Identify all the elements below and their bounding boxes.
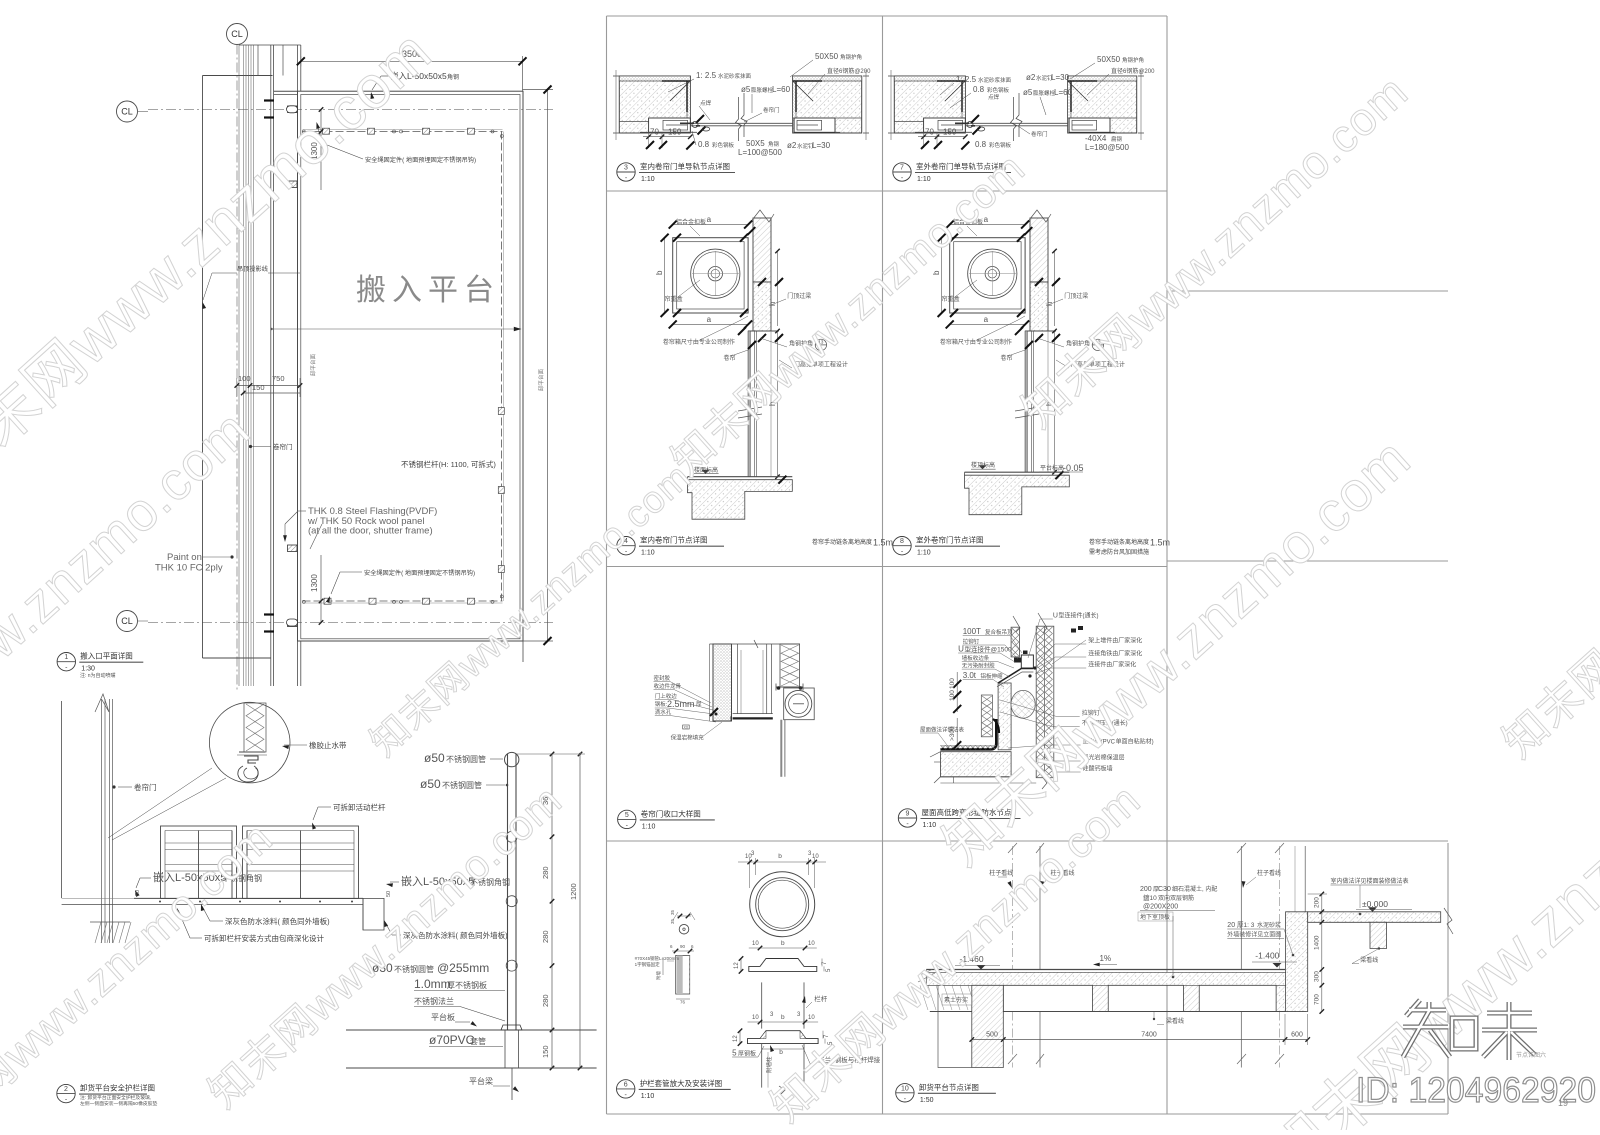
ground line steps left — [926, 985, 972, 1067]
svg-text:平台梁: 平台梁 — [469, 1076, 493, 1086]
safety hook clamp — [498, 487, 504, 494]
svg-text:卸货平台安全护栏详图: 卸货平台安全护栏详图 — [80, 1083, 155, 1093]
svg-text:不锈钢法兰: 不锈钢法兰 — [414, 996, 454, 1006]
handrail post (right elevation) — [507, 754, 509, 1030]
svg-text:0.8: 0.8 — [973, 85, 985, 94]
lintel concrete — [1030, 282, 1048, 331]
bottom ledge of insulation — [776, 686, 803, 688]
svg-text:L=180@500: L=180@500 — [1085, 143, 1129, 152]
svg-text:附墙柱: 附墙柱 — [765, 1056, 773, 1073]
svg-text:b: b — [778, 853, 782, 860]
svg-text:150: 150 — [252, 383, 265, 392]
wall face line — [770, 331, 772, 477]
svg-text:U: U — [958, 645, 964, 654]
svg-text:3.0t: 3.0t — [963, 671, 977, 680]
floor slab hatched — [965, 471, 1070, 473]
dim b left — [941, 238, 943, 313]
svg-text:套管: 套管 — [470, 1036, 486, 1046]
svg-text:卷帘门: 卷帘门 — [763, 106, 780, 114]
post sleeve ring — [506, 896, 517, 907]
beam under right slab — [1370, 922, 1387, 948]
shutter coil circles — [968, 249, 1017, 298]
svg-text:平台标高: 平台标高 — [1040, 464, 1064, 472]
svg-text:直径6钢筋@200: 直径6钢筋@200 — [827, 67, 871, 75]
svg-text:屋面做法详做法表: 屋面做法详做法表 — [920, 726, 965, 734]
svg-text:ø5: ø5 — [1023, 88, 1033, 97]
svg-text:50X5: 50X5 — [746, 139, 765, 148]
wall break top — [95, 694, 109, 712]
tube dims — [672, 950, 694, 952]
wall break top — [1026, 210, 1051, 224]
wire CL vertical centerline — [236, 45, 238, 691]
h dim line lower — [777, 331, 779, 477]
top line across — [710, 643, 801, 645]
svg-text:水泥砂浆抹面: 水泥砂浆抹面 — [718, 72, 752, 80]
svg-text:平台板: 平台板 — [431, 1012, 455, 1022]
sleeve plan ring — [750, 872, 815, 937]
svg-text:300: 300 — [1314, 971, 1321, 982]
svg-text:门顶过梁: 门顶过梁 — [1064, 292, 1088, 300]
svg-text:室内做法详见楼面装修做法表: 室内做法详见楼面装修做法表 — [1331, 877, 1409, 885]
svg-text:3: 3 — [624, 165, 628, 172]
svg-text:复合板吊顶: 复合板吊顶 — [985, 628, 1013, 636]
wall line top right — [1304, 846, 1306, 912]
svg-text:彩色钢板: 彩色钢板 — [987, 86, 1010, 94]
concrete block right — [793, 76, 862, 133]
svg-text:拉铆钉: 拉铆钉 — [963, 638, 980, 646]
dimension 3500 top — [301, 60, 523, 62]
detail blowup circle (rubber seal) — [209, 702, 290, 783]
svg-text:1200: 1200 — [569, 883, 578, 900]
rubber water stop profile — [244, 756, 258, 763]
safety hook clamp — [324, 598, 331, 604]
svg-text:需考虑防台风加固措施: 需考虑防台风加固措施 — [1089, 548, 1149, 556]
wall break top — [749, 210, 774, 224]
railing mid posts — [198, 831, 200, 899]
svg-text:安全绳固定件( 地面预埋固定不锈钢吊钩): 安全绳固定件( 地面预埋固定不锈钢吊钩) — [365, 156, 476, 164]
svg-text:卷帘手动链条离地高度: 卷帘手动链条离地高度 — [1089, 538, 1149, 546]
section arrow line mid — [271, 328, 520, 330]
detail title 3 — [617, 163, 635, 181]
svg-text:点焊: 点焊 — [988, 93, 1000, 101]
svg-text:卸平台面: 卸平台面 — [537, 369, 545, 392]
post sleeve ring — [506, 960, 517, 971]
h dim line lower — [1054, 331, 1056, 472]
column sight lines left — [1039, 846, 1041, 970]
detail title 9 — [898, 809, 916, 827]
shutter door guide rails (plan) — [243, 45, 245, 686]
svg-text:1:30: 1:30 — [81, 666, 95, 673]
dim a top — [950, 224, 1025, 226]
left ceiling insulation panel — [1011, 627, 1019, 657]
svg-text:帘重盒: 帘重盒 — [665, 295, 683, 303]
door track mount boxes on wall — [288, 106, 298, 113]
right double insulated wall — [1036, 626, 1054, 778]
svg-text:5: 5 — [625, 812, 629, 819]
svg-text:b: b — [932, 270, 941, 275]
shutter coil circles — [691, 249, 740, 298]
weld dot — [692, 122, 698, 128]
svg-text:厚: 厚 — [696, 701, 702, 708]
svg-text:90: 90 — [680, 944, 686, 949]
platform slab at post — [346, 1029, 597, 1031]
detail title 4 — [617, 537, 635, 555]
svg-text:XX: XX — [684, 725, 689, 729]
svg-text:可拆卸栏杆安装方式由包商深化设计: 可拆卸栏杆安装方式由包商深化设计 — [204, 933, 324, 943]
svg-text:地下室顶板: 地下室顶板 — [1140, 913, 1170, 921]
svg-text:角钢护角: 角钢护角 — [840, 53, 862, 61]
anchor detail dots on slab — [159, 901, 161, 903]
rail end — [393, 600, 396, 603]
wall inner lines — [270, 45, 272, 686]
railing panel — [161, 826, 237, 899]
svg-text:柱子看线: 柱子看线 — [1257, 869, 1281, 877]
svg-text:@200X200: @200X200 — [1143, 904, 1178, 911]
floor slab hatched — [688, 476, 793, 478]
svg-text:铝板伸缩: 铝板伸缩 — [981, 672, 1004, 680]
svg-text:5: 5 — [732, 1048, 737, 1057]
dim 1300 bottom — [320, 555, 322, 623]
svg-text:1:10: 1:10 — [642, 823, 656, 830]
label 素土夯实 — [942, 994, 972, 1005]
svg-text:100: 100 — [238, 374, 251, 383]
svg-text:70: 70 — [650, 128, 659, 137]
svg-text:700: 700 — [1314, 994, 1321, 1005]
PVC sleeve in slab — [504, 1030, 506, 1068]
svg-text:h: h — [768, 302, 777, 306]
svg-text:角钢: 角钢 — [447, 73, 459, 81]
svg-text:梁看线: 梁看线 — [1166, 1017, 1184, 1025]
right overall dim line — [547, 90, 549, 642]
guide channel right — [753, 331, 755, 477]
svg-text:1.0mm: 1.0mm — [414, 977, 451, 991]
bold ticks near lintel — [1024, 227, 1032, 235]
svg-text:左侧一侧面安装一侧再隔50橡皮胶垫: 左侧一侧面安装一侧再隔50橡皮胶垫 — [80, 1100, 157, 1107]
svg-text:L=200mm: L=200mm — [659, 956, 679, 961]
shutter door slats between blocks — [690, 122, 792, 124]
svg-text:点焊: 点焊 — [700, 99, 712, 107]
svg-text:CL: CL — [231, 29, 243, 39]
dim a bottom — [950, 323, 1025, 325]
svg-text:1.5m: 1.5m — [1150, 538, 1170, 548]
svg-text:无污染耐封胶: 无污染耐封胶 — [962, 662, 996, 670]
svg-text:50: 50 — [135, 890, 141, 896]
bottom plate lines — [640, 131, 697, 133]
angle protect corner left block — [937, 80, 965, 82]
svg-text:1: 2.5: 1: 2.5 — [696, 71, 717, 80]
svg-text:20: 20 — [1227, 922, 1235, 929]
svg-text:150: 150 — [668, 128, 682, 137]
svg-text:卸平台面: 卸平台面 — [309, 354, 317, 377]
node CL top grid circle — [227, 24, 248, 45]
break at right slab end — [1444, 908, 1453, 934]
wall lines left — [61, 701, 63, 898]
platform outer rectangle — [298, 91, 524, 641]
svg-text:密封胶: 密封胶 — [654, 674, 671, 682]
roof surface insulation layer — [940, 746, 995, 750]
door break mark — [1015, 407, 1039, 418]
svg-text:门顶过梁: 门顶过梁 — [787, 292, 811, 300]
svg-text:架上增件由厂家深化: 架上增件由厂家深化 — [1088, 637, 1142, 645]
post lines above installed flange — [761, 982, 763, 1028]
svg-text:-40X4: -40X4 — [1085, 134, 1107, 143]
svg-text:a: a — [707, 215, 712, 224]
svg-text:滴水孔: 滴水孔 — [655, 708, 672, 716]
svg-text:1: 2.5: 1: 2.5 — [956, 75, 977, 84]
right dim chain — [1321, 894, 1323, 1012]
door bottom bar — [733, 717, 773, 719]
door roller capsule top — [287, 106, 298, 113]
svg-text:ø2: ø2 — [787, 141, 797, 150]
svg-text:100T: 100T — [963, 627, 981, 636]
svg-text:收边件龙骨: 收边件龙骨 — [654, 682, 682, 690]
rail end — [491, 130, 494, 133]
svg-text:10: 10 — [752, 941, 759, 947]
door head line — [748, 330, 779, 332]
svg-text:卷帘箱尺寸由专业公司制作: 卷帘箱尺寸由专业公司制作 — [940, 338, 1012, 346]
safety hook clamp — [498, 408, 504, 415]
svg-text:水泥砂浆: 水泥砂浆 — [1257, 921, 1281, 929]
svg-text:卷帘手动链条离地高度: 卷帘手动链条离地高度 — [812, 538, 872, 546]
svg-text:安全绳固定件( 地面预埋固定不锈钢吊钩): 安全绳固定件( 地面预埋固定不锈钢吊钩) — [364, 569, 475, 577]
dim a bottom — [673, 323, 748, 325]
detail title 8 — [893, 537, 911, 555]
angle protect corner right block — [1068, 80, 1097, 82]
svg-text:ø70PVC: ø70PVC — [429, 1033, 475, 1047]
svg-text:12: 12 — [733, 1035, 739, 1042]
svg-text:保温岩棉填充: 保温岩棉填充 — [671, 734, 705, 742]
svg-text:-0.05: -0.05 — [1063, 463, 1084, 473]
rail end — [491, 600, 494, 603]
svg-text:35: 35 — [670, 909, 675, 915]
svg-text:帘重盒: 帘重盒 — [942, 295, 960, 303]
safety hook clamp — [323, 128, 330, 134]
left small tube elevation — [679, 924, 689, 934]
svg-text:扁钢: 扁钢 — [1111, 135, 1123, 143]
svg-text:200: 200 — [1314, 897, 1321, 908]
vertical break lines — [1011, 97, 1017, 141]
svg-text:注: n为自动喷嘴: 注: n为自动喷嘴 — [80, 672, 116, 679]
lines below installed flange — [761, 1044, 763, 1088]
door slat vertical — [1025, 331, 1027, 472]
svg-text:@255mm: @255mm — [437, 961, 489, 975]
safety hook clamp — [468, 128, 475, 134]
svg-text:150: 150 — [943, 128, 957, 137]
svg-text:750: 750 — [272, 374, 285, 383]
break marks on columns — [1008, 843, 1284, 853]
svg-text:#70X45: #70X45 — [635, 956, 651, 961]
svg-text:膨胀螺栓: 膨胀螺栓 — [751, 86, 774, 94]
svg-text:150: 150 — [541, 1045, 550, 1058]
insulation strip right — [780, 644, 800, 687]
platform wall edge pair — [297, 45, 299, 91]
svg-text:10: 10 — [901, 1085, 909, 1092]
mount bold ticks — [264, 99, 274, 101]
svg-text:室内卷帘门单导轨节点详图: 室内卷帘门单导轨节点详图 — [640, 161, 730, 171]
dim b left — [664, 238, 666, 313]
svg-text:1:10: 1:10 — [917, 550, 931, 557]
svg-text:直径6钢筋@200: 直径6钢筋@200 — [1111, 67, 1155, 75]
dim chain right of post — [551, 754, 553, 1068]
guide channel right — [1030, 331, 1032, 472]
wire CL horizontal centerline lower — [148, 622, 553, 624]
svg-text:L=30: L=30 — [812, 141, 831, 150]
svg-text:Paint on: Paint on — [167, 552, 202, 563]
svg-text:600: 600 — [1291, 1032, 1303, 1039]
svg-text:ø5: ø5 — [741, 85, 751, 94]
svg-text:0.8: 0.8 — [975, 140, 987, 149]
wall column hatched above lintel — [753, 218, 771, 282]
svg-text:彩色钢板: 彩色钢板 — [712, 141, 735, 149]
shutter box outer — [950, 238, 1025, 313]
ground hatch below wall — [95, 922, 101, 943]
bottom line of beams — [930, 1011, 1306, 1013]
svg-text:不锈钢圆管: 不锈钢圆管 — [446, 754, 486, 764]
rail end — [393, 130, 396, 133]
svg-text:L=30: L=30 — [1051, 73, 1070, 82]
svg-text:8: 8 — [900, 538, 904, 545]
svg-text:不锈钢圆管: 不锈钢圆管 — [442, 780, 482, 790]
svg-text:CL: CL — [121, 616, 133, 626]
svg-text:室外卷帘门节点详图: 室外卷帘门节点详图 — [916, 535, 984, 545]
wall column hatched above lintel — [1030, 218, 1048, 282]
svg-text:1字钢锚固定: 1字钢锚固定 — [635, 961, 661, 968]
svg-text:100: 100 — [949, 678, 956, 689]
svg-text:h: h — [1045, 302, 1054, 306]
platform top edge extension to wall — [274, 90, 298, 92]
level mark on floor — [979, 465, 987, 469]
rail pocket right — [1069, 118, 1110, 132]
svg-text:35: 35 — [670, 918, 675, 924]
wall band bottom — [203, 657, 272, 659]
detail title 1 — [57, 653, 75, 671]
right high-level structure — [1286, 912, 1308, 1012]
mortar strip inner edge left block — [962, 81, 965, 118]
svg-text:1:10: 1:10 — [641, 550, 655, 557]
svg-text:卷帘门: 卷帘门 — [273, 442, 293, 451]
svg-text:1:10: 1:10 — [917, 176, 931, 183]
svg-text:200: 200 — [1140, 886, 1152, 893]
svg-text:吊顶投影线: 吊顶投影线 — [237, 265, 268, 273]
svg-text:外墙装修详见立面图: 外墙装修详见立面图 — [1227, 931, 1281, 939]
detail title 2 — [57, 1084, 75, 1102]
level mark on floor — [702, 470, 710, 474]
svg-text:1400: 1400 — [1314, 935, 1321, 950]
dim 1300 top — [320, 110, 322, 191]
detail title 10 — [896, 1084, 914, 1102]
door head line — [1025, 330, 1056, 332]
hatched beams between voids — [1093, 985, 1109, 1011]
parapet insulation strip — [981, 695, 992, 737]
rail end — [400, 130, 403, 133]
svg-text:角钢: 角钢 — [768, 140, 780, 148]
dim 70 150 — [918, 136, 965, 138]
U connector box — [1021, 655, 1033, 668]
small break at top — [754, 640, 758, 648]
svg-text:可拆卸活动栏杆: 可拆卸活动栏杆 — [333, 802, 386, 812]
svg-text:水泥砂浆抹面: 水泥砂浆抹面 — [978, 76, 1012, 84]
svg-text:500: 500 — [986, 1032, 998, 1039]
wire CL horizontal centerline upper — [148, 109, 553, 111]
door slat vertical — [748, 331, 750, 477]
svg-text:b: b — [781, 940, 785, 947]
door break mark — [738, 407, 762, 418]
svg-text:搬入口平面详图: 搬入口平面详图 — [80, 651, 133, 661]
svg-text:50X50: 50X50 — [815, 52, 839, 61]
svg-text:2: 2 — [64, 1086, 68, 1093]
svg-text:2.5mm: 2.5mm — [667, 699, 695, 709]
post top cap circle — [505, 752, 519, 766]
svg-text:ø50: ø50 — [424, 751, 445, 765]
parapet concrete column — [998, 683, 1011, 750]
svg-text:角钢护角: 角钢护角 — [1122, 56, 1144, 64]
leader from blowup to seal location — [108, 768, 212, 838]
rail pocket right — [794, 118, 835, 132]
h dim line upper — [1054, 251, 1056, 326]
left foundation wall hatched — [972, 985, 1004, 1067]
svg-text:厚1: 3: 厚1: 3 — [1237, 921, 1255, 929]
top dims — [749, 858, 751, 888]
svg-text:墙板收边条: 墙板收边条 — [962, 654, 990, 662]
svg-text:钢板:: 钢板: — [655, 700, 668, 708]
svg-text:L=60: L=60 — [772, 85, 791, 94]
dims installed — [748, 1021, 819, 1023]
svg-text:THK 10 FC 2ply: THK 10 FC 2ply — [155, 563, 223, 574]
svg-text:卷帘门收口大样图: 卷帘门收口大样图 — [641, 808, 701, 818]
concrete block left — [619, 76, 690, 133]
detail title 6 — [617, 1080, 635, 1098]
svg-text:深灰色防水涂料( 颜色同外墙板): 深灰色防水涂料( 颜色同外墙板) — [225, 916, 330, 926]
right leg bottom — [835, 117, 862, 119]
earth wedge left — [918, 970, 935, 986]
svg-text:卷帘门: 卷帘门 — [134, 782, 157, 792]
svg-text:卷帘箱尺寸由专业公司制作: 卷帘箱尺寸由专业公司制作 — [663, 338, 735, 346]
svg-text:19: 19 — [1558, 1098, 1568, 1108]
sheet grid border lines — [606, 16, 608, 1114]
slab under railing — [134, 897, 363, 899]
svg-text:7: 7 — [900, 165, 904, 172]
svg-text:-1.400: -1.400 — [1255, 951, 1279, 961]
svg-text:节点详图六: 节点详图六 — [1516, 1051, 1546, 1059]
svg-text:b: b — [781, 1014, 785, 1021]
svg-text:76: 76 — [680, 1000, 686, 1005]
svg-text:附墙: 附墙 — [655, 971, 662, 980]
svg-text:1:10: 1:10 — [641, 1093, 655, 1100]
safety rope rail bottom — [303, 600, 503, 602]
svg-text:橡胶止水带: 橡胶止水带 — [309, 740, 347, 750]
znzmo logo bottom right — [1406, 1000, 1420, 1016]
sloped flashing cap — [998, 669, 1033, 684]
svg-text:型连接件@1500: 型连接件@1500 — [965, 645, 1012, 654]
vertical break lines — [736, 97, 742, 141]
svg-text:b: b — [779, 1049, 783, 1056]
angle protect corner left block — [662, 80, 690, 82]
rail pocket left — [924, 118, 966, 132]
shutter box outer — [673, 238, 748, 313]
svg-text:b: b — [655, 270, 664, 275]
platform inner rectangle — [301, 95, 520, 639]
wall left face line — [202, 76, 204, 659]
beam voids under slab — [1003, 985, 1092, 1011]
door pocket verticals — [737, 644, 739, 714]
lintel concrete — [753, 282, 771, 331]
left leg of block — [619, 121, 648, 123]
svg-text:栏杆: 栏杆 — [814, 994, 828, 1003]
svg-text:a: a — [707, 315, 712, 324]
dim b below — [762, 1048, 804, 1050]
door leaf below — [780, 720, 782, 777]
roller box — [784, 688, 815, 720]
